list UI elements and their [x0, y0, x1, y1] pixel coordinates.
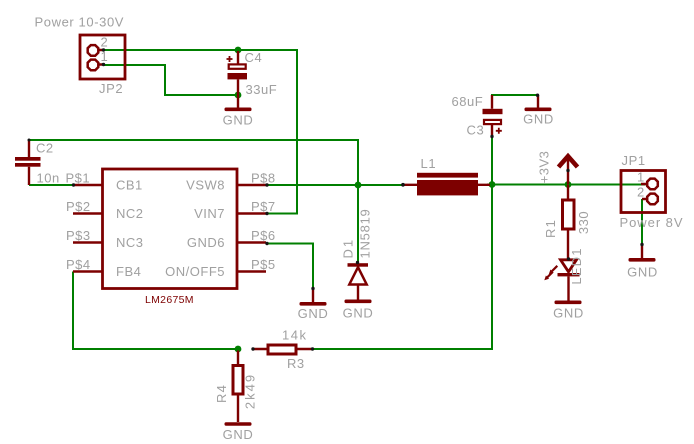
resistor R4 — [233, 351, 243, 423]
svg-text:2: 2 — [101, 35, 109, 50]
pin P$6 (GND) — [237, 241, 266, 243]
R1 value label 330 — [576, 211, 591, 234]
connector JP1 — [621, 171, 666, 213]
wire net GND from P$6 — [267, 244, 313, 289]
wire net VOUT from L1 to JP1 pin1 — [487, 184, 646, 186]
wire VOUT up to C3 — [491, 137, 493, 185]
diode D1 1N5819 — [348, 263, 369, 299]
pin label VSW8 — [186, 178, 225, 193]
JP2 value label Power 10-30V — [35, 15, 125, 30]
svg-text:+3V3: +3V3 — [537, 151, 552, 184]
svg-text:NC2: NC2 — [116, 206, 144, 221]
svg-text:P$8: P$8 — [251, 171, 276, 186]
svg-text:Power 8V: Power 8V — [620, 215, 684, 230]
svg-text:C3: C3 — [467, 123, 485, 138]
LED1 name label — [569, 247, 584, 284]
pin label ON/OFF5 — [165, 264, 225, 279]
svg-text:ON/OFF5: ON/OFF5 — [165, 264, 225, 279]
pin name P$4 — [66, 257, 91, 272]
svg-text:L1: L1 — [421, 156, 437, 171]
R4 name label — [214, 384, 229, 403]
R4 value label 2k49 — [243, 373, 258, 409]
wire net GND from JP1 pin2 — [641, 199, 643, 245]
pin name P$3 — [66, 228, 91, 243]
pin name P$2 — [66, 199, 91, 214]
connector JP2 — [80, 35, 125, 79]
pin P$8 (VSW) — [237, 184, 266, 186]
pin P$5 (ON/OFF) — [237, 270, 266, 272]
wire net FB from P$4 to divider — [73, 272, 238, 350]
pin P$2 (NC) — [73, 212, 102, 214]
ground symbol below C4 — [223, 95, 254, 128]
pin name P$5 — [251, 257, 276, 272]
pin label FB4 — [116, 264, 141, 279]
pin name P$7 — [251, 199, 276, 214]
resistor R3 — [252, 345, 312, 354]
svg-text:Power 10-30V: Power 10-30V — [35, 15, 125, 30]
svg-text:GND6: GND6 — [187, 235, 225, 250]
svg-text:10n: 10n — [37, 171, 60, 186]
capacitor C2 — [15, 140, 41, 185]
capacitor C3 (polarized) — [483, 95, 503, 137]
svg-text:33uF: 33uF — [246, 82, 278, 97]
svg-text:VSW8: VSW8 — [186, 178, 225, 193]
ground symbol below LED1 — [553, 301, 584, 321]
ground symbol below R4 — [223, 422, 254, 442]
pin label NC2 — [116, 206, 144, 221]
JP1 pin 2 number — [637, 185, 645, 200]
svg-text:P$1: P$1 — [66, 171, 91, 186]
pin connection dots — [28, 48, 644, 350]
svg-text:GND: GND — [627, 265, 658, 280]
junction VIN+ at C4 top — [235, 47, 242, 54]
svg-text:2: 2 — [637, 185, 645, 200]
svg-text:P$3: P$3 — [66, 228, 91, 243]
LED1 — [544, 260, 579, 301]
pin P$3 (NC) — [73, 241, 102, 243]
JP1 pin 1 number — [637, 170, 645, 185]
svg-text:C2: C2 — [36, 141, 54, 156]
IC value label LM2675M — [145, 294, 194, 306]
svg-text:330: 330 — [576, 211, 591, 234]
resistor R1 — [563, 185, 575, 260]
R3 name label — [287, 356, 305, 371]
ground symbol below JP1 — [627, 245, 658, 280]
svg-text:2k49: 2k49 — [243, 373, 258, 409]
pin name P$1 — [66, 171, 91, 186]
svg-text:R1: R1 — [543, 219, 558, 238]
svg-text:GND: GND — [298, 306, 329, 321]
svg-text:LM2675M: LM2675M — [145, 294, 194, 306]
svg-text:1N5819: 1N5819 — [358, 208, 373, 258]
wire VSW down to D1 — [357, 185, 359, 263]
svg-text:JP1: JP1 — [622, 153, 646, 168]
JP1 value label Power 8V — [620, 215, 684, 230]
svg-text:VIN7: VIN7 — [194, 206, 225, 221]
ground symbol below D1 — [343, 300, 374, 321]
D1 value label 1N5819 — [358, 208, 373, 258]
wire net GND from JP2 pin1 — [103, 65, 238, 95]
ground symbol below P$6 wire — [298, 289, 329, 322]
svg-text:P$6: P$6 — [251, 228, 276, 243]
R1 name label — [543, 219, 558, 238]
C3 value label 68uF — [452, 94, 484, 109]
svg-text:CB1: CB1 — [116, 178, 143, 193]
wire net CB from C2 bottom to P$1 — [29, 184, 73, 186]
pin label CB1 — [116, 178, 143, 193]
C2 name label — [36, 141, 54, 156]
pin P$4 (FB) — [73, 270, 102, 272]
pin name P$8 — [251, 171, 276, 186]
+3V3 net label — [537, 151, 552, 184]
pin label NC3 — [116, 235, 144, 250]
svg-text:GND: GND — [523, 112, 554, 127]
wire C3 top to GND — [491, 94, 538, 96]
L1 name label — [421, 156, 437, 171]
JP2 pin 1 number — [101, 49, 109, 64]
wire net VSW from P$8 to L1 — [267, 184, 403, 186]
junction GND at C4 bottom — [235, 92, 242, 99]
JP1 name label — [622, 153, 646, 168]
pin name P$6 — [251, 228, 276, 243]
svg-text:D1: D1 — [341, 238, 356, 259]
svg-text:14k: 14k — [282, 328, 307, 343]
svg-text:GND: GND — [553, 306, 584, 321]
JP2 name label — [99, 81, 123, 96]
C4 value label 33uF — [246, 82, 278, 97]
supply symbol +3V3 — [559, 156, 578, 184]
svg-text:P$5: P$5 — [251, 257, 276, 272]
JP2 pin 2 number — [101, 35, 109, 50]
svg-text:GND: GND — [223, 113, 254, 128]
svg-text:NC3: NC3 — [116, 235, 144, 250]
svg-text:P$2: P$2 — [66, 199, 91, 214]
junction VSW at D1 — [355, 182, 362, 189]
svg-text:R4: R4 — [214, 384, 229, 403]
svg-text:FB4: FB4 — [116, 264, 141, 279]
svg-text:GND: GND — [343, 306, 374, 321]
pin P$7 (VIN) — [237, 212, 266, 214]
svg-text:P$4: P$4 — [66, 257, 91, 272]
svg-text:1: 1 — [637, 170, 645, 185]
svg-text:LED1: LED1 — [569, 247, 584, 284]
C3 name label — [467, 123, 485, 138]
svg-text:68uF: 68uF — [452, 94, 484, 109]
wire VOUT down to feedback — [312, 185, 492, 350]
C2 value label 10n — [37, 171, 60, 186]
svg-text:C4: C4 — [245, 50, 263, 65]
pin P$1 (CB) — [73, 184, 102, 186]
svg-text:R3: R3 — [287, 356, 305, 371]
wire net CB from C2 top to VSW — [29, 140, 358, 184]
pin label GND6 — [187, 235, 225, 250]
op IC U1 LM2675M box — [103, 169, 238, 289]
R3 value label 14k — [282, 328, 307, 343]
wire net VIN+ from JP2 pin2 — [103, 50, 297, 214]
junction VOUT at L1 — [489, 181, 496, 188]
svg-text:GND: GND — [223, 427, 254, 442]
svg-text:P$7: P$7 — [251, 199, 276, 214]
ground symbol right of C3 — [523, 95, 554, 127]
inductor L1 — [404, 173, 490, 196]
junction FB at R4 — [235, 346, 242, 353]
capacitor C4 (polarized) — [227, 51, 248, 95]
C4 name label — [245, 50, 263, 65]
junction VOUT at +3V3 — [565, 181, 572, 188]
pin label VIN7 — [194, 206, 225, 221]
D1 name label — [341, 238, 356, 259]
svg-text:JP2: JP2 — [99, 81, 123, 96]
